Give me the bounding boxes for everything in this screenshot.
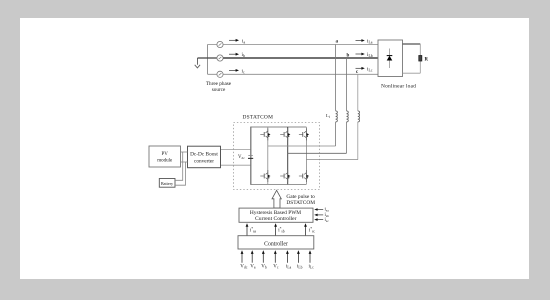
svg-text:converter: converter: [194, 159, 214, 165]
AC source phase b: [217, 55, 223, 61]
input arrow V_b: [262, 250, 265, 262]
transistor Q2: [299, 170, 309, 182]
wire: source left bus: [207, 45, 209, 75]
svg-text:isc: isc: [325, 218, 330, 223]
bridge frame: dc bus + rails: [251, 127, 307, 184]
wire riser a: [335, 45, 337, 147]
svg-text:module: module: [157, 159, 173, 164]
wire riser b: [346, 58, 348, 153]
svg-text:Vb: Vb: [261, 265, 267, 270]
wire load right: [403, 44, 421, 73]
wire: boost to dc bus bottom: [221, 164, 251, 166]
wire phase a: [208, 44, 379, 46]
arrow i_La: [356, 39, 365, 42]
svg-text:Vdc: Vdc: [238, 155, 245, 160]
arrow i_Lb: [356, 53, 365, 56]
wire PV to boost top: [181, 151, 188, 153]
svg-text:iLb: iLb: [297, 265, 303, 270]
bridge leg 2: [287, 127, 289, 184]
wire: phase b to ground: [198, 57, 217, 59]
capacitor Cdc: [248, 155, 253, 157]
transistor Q5: [299, 128, 309, 140]
AC source phase a: [217, 41, 223, 47]
stub arrow i_sb: [314, 214, 323, 217]
wire phase tap b: [288, 152, 347, 154]
PV module box: [149, 146, 181, 167]
input arrow V_c: [274, 250, 277, 262]
svg-text:isa: isa: [325, 207, 330, 212]
wire load top: [403, 43, 421, 45]
stub arrow i_sa: [314, 208, 323, 211]
transistor Q3: [280, 128, 290, 140]
svg-text:Controller: Controller: [264, 241, 288, 247]
input arrow V_dc: [241, 250, 244, 262]
input arrow i_Lb: [297, 250, 300, 262]
wire phase tap c: [306, 159, 357, 161]
hysteresis controller box: [239, 208, 313, 222]
input arrow i_Lc: [309, 250, 312, 262]
ref arrow i*_sc: [304, 223, 307, 235]
ref arrow i*_sb: [274, 223, 277, 235]
wire phase b: [223, 57, 378, 59]
wire battery tap 1: [175, 152, 183, 180]
DSTATCOM dashed box: [234, 123, 320, 190]
wire phase tap a: [268, 145, 336, 147]
battery box: [159, 179, 175, 188]
gate pulse arrow: [272, 190, 281, 208]
svg-text:R: R: [425, 58, 429, 63]
input arrow i_La: [286, 250, 289, 262]
svg-text:Dc-Dc Boost: Dc-Dc Boost: [190, 152, 218, 158]
wire phase c: [208, 73, 379, 75]
svg-text:b: b: [347, 54, 350, 59]
stub arrow i_sc: [314, 218, 323, 221]
load resistor R: [419, 56, 422, 62]
svg-text:Battery: Battery: [161, 181, 174, 186]
controller box: [238, 236, 314, 249]
bridge leg 1: [267, 127, 269, 184]
inductor La: [336, 111, 338, 122]
arrow i_Lc: [356, 67, 365, 70]
svg-text:DSTATCOM: DSTATCOM: [286, 200, 315, 206]
arrow i_c: [229, 69, 239, 72]
svg-text:Va: Va: [250, 265, 256, 270]
input arrow V_a: [251, 250, 254, 262]
diode D1: [389, 49, 391, 69]
svg-text:Current Controller: Current Controller: [255, 216, 297, 222]
wire: boost to dc bus top: [221, 149, 251, 151]
svg-text:Vc: Vc: [273, 265, 279, 270]
svg-text:Nonlinear load: Nonlinear load: [381, 84, 416, 90]
arrow i_b: [229, 53, 239, 56]
svg-text:source: source: [212, 87, 226, 93]
svg-text:iLc: iLc: [309, 265, 315, 270]
wire riser c: [357, 74, 359, 159]
ref arrow i*_sa: [246, 223, 249, 235]
svg-text:PV: PV: [161, 152, 168, 157]
AC source phase c: [217, 71, 223, 77]
svg-text:Vdc: Vdc: [240, 265, 247, 270]
Dc-Dc boost converter box: [188, 146, 221, 168]
transistor Q4: [260, 170, 270, 182]
ground: [195, 58, 200, 68]
transistor Q1: [260, 128, 270, 140]
wire PV to boost bottom: [181, 161, 188, 163]
inductor Lb: [347, 111, 349, 122]
nonlinear load box: [378, 40, 403, 77]
svg-text:DSTATCOM: DSTATCOM: [243, 114, 274, 120]
arrow i_a: [229, 39, 239, 42]
bridge leg 3: [305, 127, 307, 184]
wire battery tap 2: [175, 162, 186, 185]
inductor Lc: [358, 111, 360, 122]
svg-text:iLa: iLa: [286, 265, 292, 270]
transistor Q6: [280, 170, 290, 182]
